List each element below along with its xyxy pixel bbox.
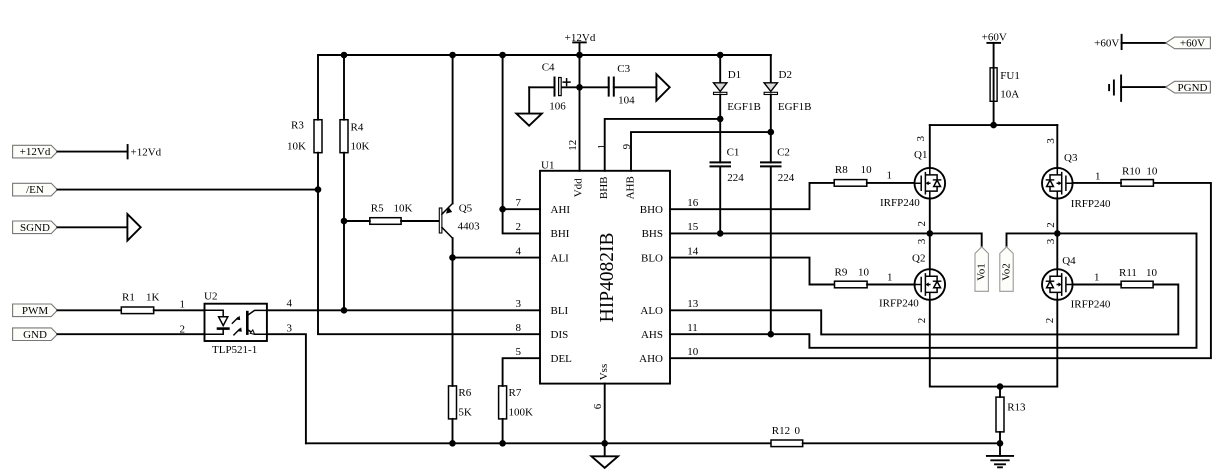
port +60V (right) (1166, 37, 1211, 50)
wire BHO to R8 (670, 183, 834, 209)
svg-text:224: 224 (778, 172, 795, 184)
wire AHB up and right to D2 (631, 132, 771, 171)
wire +60V to port (1122, 42, 1166, 44)
svg-text:1: 1 (1094, 271, 1100, 283)
svg-text:8: 8 (516, 322, 522, 334)
resistor R7 (499, 386, 533, 419)
wire R1 to U2 pin1 (154, 309, 205, 311)
svg-text:IRFP240: IRFP240 (879, 298, 919, 310)
ground symbol PGND (sideways earth) (1109, 76, 1121, 101)
svg-text:Vo2: Vo2 (1001, 263, 1013, 281)
ground (signal, Vss) (592, 456, 619, 468)
U1 top pin numbers (rotated) (567, 140, 633, 409)
svg-text:6: 6 (592, 403, 604, 409)
svg-text:3: 3 (1045, 238, 1057, 244)
svg-text:ALO: ALO (640, 305, 663, 317)
svg-text:3: 3 (915, 136, 927, 142)
svg-text:12: 12 (567, 140, 579, 151)
svg-text:10: 10 (861, 164, 873, 176)
svg-text:10K: 10K (394, 202, 413, 214)
ground (earth) (987, 443, 1013, 467)
svg-text:BLO: BLO (641, 252, 663, 264)
svg-text:AHB: AHB (625, 176, 637, 199)
resistor R10 (1121, 165, 1158, 186)
svg-text:2: 2 (516, 221, 522, 233)
svg-text:R9: R9 (835, 267, 848, 279)
svg-text:15: 15 (687, 221, 699, 233)
svg-text:R10: R10 (1122, 165, 1141, 177)
svg-text:GND: GND (23, 329, 47, 341)
resistor R4 (340, 120, 370, 153)
svg-text:Vo1: Vo1 (976, 263, 988, 281)
port SGND (13, 221, 58, 234)
wire Vdd vertical (579, 55, 581, 171)
svg-text:R7: R7 (509, 387, 522, 399)
svg-text:10K: 10K (287, 141, 306, 153)
node rail AHI/BHI (499, 52, 506, 59)
wire C4 to ground (528, 87, 530, 113)
wire Q4 source down (1000, 300, 1057, 387)
power symbol +12Vd (left) (128, 145, 162, 158)
wire ALI to IC (453, 257, 541, 259)
wire R9 to Q2 gate (867, 284, 915, 286)
svg-text:U2: U2 (204, 291, 217, 303)
svg-text:R3: R3 (291, 120, 304, 132)
svg-text:10A: 10A (1000, 88, 1019, 100)
resistor R6 (449, 386, 472, 419)
svg-text:1: 1 (887, 170, 893, 182)
node FU1/drain rail (990, 122, 997, 129)
wire R3 bottom through /EN to DIS (318, 153, 540, 335)
svg-text:D2: D2 (779, 69, 792, 81)
svg-text:C4: C4 (542, 62, 555, 74)
wire ALO to R11 (670, 285, 1178, 335)
svg-text:16: 16 (687, 197, 699, 209)
power symbol +12Vd (top) (565, 32, 596, 55)
node R4/R5 junction (341, 218, 348, 225)
U1 right pin names (639, 204, 663, 365)
svg-text:5K: 5K (458, 407, 472, 419)
svg-text:BHO: BHO (640, 204, 663, 216)
wire node to Vo2 (1007, 233, 1058, 246)
wire R3 top to rail (317, 55, 319, 120)
wire GND to U2 pin2 (57, 333, 204, 335)
port /EN (13, 183, 58, 196)
IC U1 HIP4082IB box (540, 159, 670, 383)
svg-text:AHS: AHS (641, 329, 663, 341)
svg-text:104: 104 (618, 94, 635, 106)
svg-text:Q1: Q1 (914, 149, 927, 161)
port GND (13, 328, 58, 341)
port PGND (right) (1166, 81, 1211, 94)
svg-text:4: 4 (287, 298, 293, 310)
svg-text:EGF1B: EGF1B (778, 101, 812, 113)
svg-text:3: 3 (287, 323, 293, 335)
wire BHS to Q1/Q2 node (670, 232, 930, 234)
svg-text:Q5: Q5 (459, 203, 473, 215)
svg-text:HIP4082IB: HIP4082IB (597, 232, 618, 322)
wire node to Vo1 (930, 233, 982, 246)
drain rail Q1-Q3 (930, 124, 1058, 126)
svg-text:14: 14 (687, 245, 699, 257)
capacitor C4 (529, 62, 579, 113)
svg-text:ALI: ALI (551, 252, 570, 264)
node D2 cathode junction (768, 129, 775, 136)
ground (signal, C4) (516, 114, 541, 126)
wire R4 to R5 (344, 220, 370, 222)
svg-text:2: 2 (916, 318, 928, 324)
svg-text:7: 7 (516, 197, 522, 209)
bottom rail left of R12 (306, 442, 771, 444)
U2 phototransistor (247, 310, 267, 334)
svg-text:Q3: Q3 (1064, 152, 1078, 164)
open triangle arrow (C3) (656, 74, 669, 101)
open triangle arrow (SGND) (127, 214, 140, 241)
wire +12Vd port to power stub (57, 151, 127, 153)
node C1/BHS junction (717, 230, 724, 237)
node AHI junction (499, 206, 506, 213)
port +12Vd (left) (13, 145, 58, 158)
resistor R3 (287, 120, 322, 153)
wire Q3 source to node (1056, 199, 1058, 234)
svg-text:10: 10 (1146, 267, 1158, 279)
svg-text:100K: 100K (509, 407, 534, 419)
svg-text:+60V: +60V (1094, 38, 1119, 50)
wire R10 to Q3 gate (1073, 182, 1121, 184)
wire BLO to R9 (670, 258, 835, 285)
svg-text:R1: R1 (122, 292, 135, 304)
port PWM (13, 304, 58, 317)
svg-text:R8: R8 (835, 164, 848, 176)
svg-text:R5: R5 (371, 202, 384, 214)
wire R4 top to rail (343, 55, 345, 120)
node /EN junction (315, 186, 322, 193)
U1 top pin names (rotated) (573, 176, 637, 380)
node cap row junction (576, 84, 583, 91)
svg-text:PWM: PWM (22, 305, 49, 317)
node Q1/Q2 midpoint (927, 230, 934, 237)
node Q3/Q4 midpoint (1054, 230, 1061, 237)
diode D1 (714, 55, 761, 119)
U1 right pin numbers (687, 197, 699, 358)
svg-text:R12: R12 (772, 425, 790, 437)
resistor R12 (771, 425, 803, 447)
wire U2 pin3 down to bottom rail (267, 334, 306, 443)
svg-text:R6: R6 (458, 387, 471, 399)
svg-text:1: 1 (596, 144, 608, 150)
wire Q4 drain (1056, 233, 1058, 269)
top +12V rail (318, 54, 771, 56)
U2 LED (205, 310, 229, 334)
svg-text:10: 10 (858, 267, 870, 279)
wire SGND to arrow (57, 226, 127, 228)
svg-text:BHI: BHI (551, 228, 570, 240)
wire U2 pin4 to IC BLI (267, 309, 540, 311)
wire Q2 drain (929, 233, 931, 269)
wire Q2 source down (930, 300, 1000, 387)
svg-text:C3: C3 (617, 63, 630, 75)
svg-text:+12Vd: +12Vd (20, 146, 51, 158)
svg-text:3: 3 (1045, 138, 1057, 144)
node R6/bottom rail (449, 440, 456, 447)
wire AHI to IC (503, 208, 540, 210)
wire Vss down (604, 384, 606, 457)
svg-text:3: 3 (516, 298, 522, 310)
wire PWM to R1 (57, 309, 121, 311)
svg-text:11: 11 (687, 322, 698, 334)
svg-text:Vdd: Vdd (573, 178, 585, 197)
wire Q5 emitter to rail (452, 55, 454, 203)
svg-text:Q4: Q4 (1062, 255, 1076, 267)
wire AHS route (670, 233, 1197, 347)
svg-text:1: 1 (887, 272, 893, 284)
capacitor C3 (580, 63, 657, 107)
svg-text:FU1: FU1 (1000, 70, 1020, 82)
svg-text:C2: C2 (777, 147, 790, 159)
svg-text:0: 0 (795, 425, 801, 437)
svg-text:3: 3 (916, 238, 928, 244)
wire BHB up and right to D1 (605, 119, 721, 171)
node D1 cathode junction (717, 116, 724, 123)
resistor R1 (121, 292, 159, 314)
svg-text:IRFP240: IRFP240 (1071, 299, 1111, 311)
svg-text:10: 10 (1146, 165, 1158, 177)
resistor R9 (835, 267, 870, 288)
wire R4 bottom to BLI row (343, 153, 345, 311)
wire PGND to port (1121, 86, 1166, 88)
node rail Vdd (576, 52, 583, 59)
node rail D1 (717, 52, 724, 59)
transistor Q4 (mirrored) (1042, 255, 1111, 310)
svg-text:Q2: Q2 (912, 253, 925, 265)
svg-text:R4: R4 (351, 122, 364, 134)
resistor R13 (996, 397, 1026, 432)
U1 left pin names (551, 204, 573, 365)
svg-text:1: 1 (1095, 171, 1101, 183)
wire R7 top to DEL (503, 358, 540, 386)
port Vo2 (vertical) (1000, 247, 1013, 291)
svg-text:IRFP240: IRFP240 (880, 197, 920, 209)
svg-text:BHS: BHS (642, 228, 663, 240)
U1 left pin numbers (516, 197, 522, 358)
optocoupler U2 box (204, 291, 267, 342)
diode D2 (764, 55, 811, 132)
svg-text:5: 5 (516, 346, 522, 358)
wire Q1 source to node (929, 199, 931, 234)
svg-text:Vss: Vss (598, 364, 610, 381)
node C2/AHS junction (768, 331, 775, 338)
svg-text:1: 1 (180, 299, 186, 311)
node R13/bottom rail (997, 440, 1004, 447)
svg-text:BLI: BLI (551, 305, 569, 317)
resistor R11 (1119, 267, 1158, 288)
svg-text:10K: 10K (351, 141, 370, 153)
capacitor C1 (711, 119, 745, 233)
node U2 pin4 / R4 junction (341, 307, 348, 314)
svg-text:AHO: AHO (639, 353, 663, 365)
svg-text:+60V: +60V (1180, 38, 1205, 50)
transistor Q2 (879, 253, 945, 310)
wire Q3 drain (1056, 125, 1058, 168)
svg-text:106: 106 (549, 101, 566, 113)
svg-text:AHI: AHI (551, 204, 571, 216)
transistor Q1 (880, 149, 945, 209)
svg-text:R13: R13 (1007, 402, 1026, 414)
svg-text:C1: C1 (727, 147, 740, 159)
svg-text:U1: U1 (541, 159, 554, 171)
svg-text:4403: 4403 (458, 220, 481, 232)
wire R11 to Q4 gate (1073, 284, 1122, 286)
wire R13 leads (999, 387, 1001, 444)
svg-text:224: 224 (727, 172, 744, 184)
wire R6 top to ALI node (452, 258, 454, 386)
svg-text:R11: R11 (1119, 267, 1137, 279)
svg-text:1K: 1K (146, 292, 160, 304)
svg-text:2: 2 (180, 324, 186, 336)
svg-text:/EN: /EN (26, 184, 44, 196)
U2 light arrows (232, 316, 242, 335)
node source rail/R13 (997, 383, 1004, 390)
svg-text:2: 2 (1044, 318, 1056, 324)
svg-text:SGND: SGND (20, 222, 50, 234)
wire R8 to Q1 gate (867, 182, 915, 184)
svg-text:D1: D1 (728, 69, 741, 81)
svg-text:PGND: PGND (1178, 82, 1208, 94)
svg-text:4: 4 (516, 245, 522, 257)
svg-text:13: 13 (687, 298, 699, 310)
node R7/bottom rail (499, 440, 506, 447)
svg-text:BHB: BHB (598, 176, 610, 199)
wire /EN to R3 line (57, 189, 317, 191)
svg-text:DEL: DEL (551, 353, 573, 365)
node rail Q5 (449, 52, 456, 59)
transistor Q3 (mirrored) (1042, 152, 1111, 210)
capacitor C2 (761, 132, 795, 334)
fuse FU1 (990, 68, 1020, 125)
wire R6 bottom to rail (452, 419, 454, 443)
svg-text:2: 2 (1045, 222, 1057, 228)
svg-text:+12Vd: +12Vd (131, 146, 162, 158)
wire AHI/BHI vertical (503, 55, 540, 233)
svg-text:EGF1B: EGF1B (727, 101, 761, 113)
svg-text:2: 2 (916, 221, 928, 227)
svg-text:10: 10 (687, 346, 699, 358)
bottom rail right of R12 (803, 442, 1000, 444)
transistor Q5 (439, 203, 480, 239)
wire Q1 drain (929, 125, 931, 168)
wire Q5 collector to ALI node (452, 238, 454, 257)
resistor R8 (834, 164, 872, 186)
wire R5 to Q5 base (401, 220, 439, 222)
svg-text:+60V: +60V (982, 31, 1007, 43)
power symbol +60V (right) (1094, 35, 1121, 50)
port Vo1 (vertical) (975, 247, 988, 291)
node Vss/bottom rail (601, 440, 608, 447)
svg-text:TLP521-1: TLP521-1 (212, 344, 257, 356)
node rail R4 (341, 52, 348, 59)
resistor R5 (370, 202, 413, 224)
wire AHO to R10 (670, 183, 1211, 358)
wire R7 bottom to rail (502, 419, 504, 443)
svg-text:DIS: DIS (551, 329, 569, 341)
node ALI junction (449, 254, 456, 261)
svg-text:IRFP240: IRFP240 (1071, 198, 1111, 210)
power symbol +60V (top) (982, 31, 1007, 67)
